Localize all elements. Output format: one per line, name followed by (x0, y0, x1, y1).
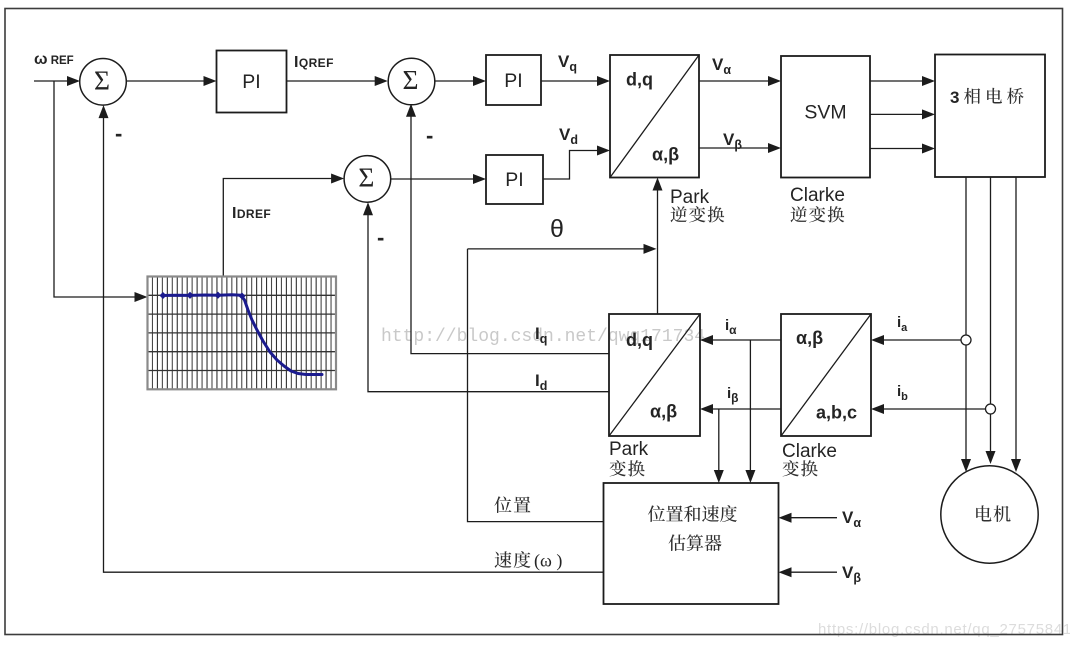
summing junction S2 (388, 58, 435, 105)
label speed (495, 551, 531, 568)
wire bridge to motor phase c (1015, 177, 1017, 460)
svg-text:Vα: Vα (842, 508, 861, 530)
wire PI3 to inverse Park (Vd) (543, 151, 598, 180)
svg-text:Vβ: Vβ (723, 130, 742, 152)
svg-text:https://blog.csdn.net/qq_27575: https://blog.csdn.net/qq_27575841 (818, 621, 1070, 638)
svg-text:α,β: α,β (652, 145, 679, 165)
wire ialpha tap to estimator (749, 340, 751, 471)
wire SVM to bridge phase 1 (870, 80, 923, 82)
current sensor node ia (961, 335, 971, 345)
svg-text:Vq: Vq (558, 52, 577, 74)
svg-text:α,β: α,β (650, 402, 677, 422)
svg-text:α,β: α,β (796, 328, 823, 348)
wire Clarke to Park (ialpha) (712, 339, 781, 341)
wire S3 to PI3 (390, 178, 474, 180)
svg-text:PI: PI (504, 70, 522, 92)
svg-text:d,q: d,q (626, 70, 653, 90)
svg-text:a,b,c: a,b,c (816, 403, 857, 423)
svg-text:(ω ): (ω ) (534, 551, 562, 572)
svg-text:SVM: SVM (804, 102, 846, 124)
wire inverse Park to SVM (Valpha) (699, 80, 769, 82)
block Park transform (609, 314, 700, 436)
block Clarke transform (781, 314, 871, 436)
svg-text:IQREF: IQREF (294, 54, 334, 71)
wire S1 to PI1 (126, 80, 204, 82)
svg-text:Park: Park (670, 187, 710, 208)
block PI2 q current regulator (486, 55, 541, 105)
wire Valpha into estimator (791, 517, 838, 519)
svg-text:ia: ia (897, 314, 908, 334)
wire ibeta tap to estimator (718, 409, 720, 471)
current sensor node ib (986, 404, 996, 414)
wire Park Id feedback to S3 (368, 214, 609, 392)
wire bridge to motor phase b (990, 177, 992, 452)
wire SVM to bridge phase 2 (870, 113, 923, 115)
wire IDREF from chart to S3 (223, 179, 332, 277)
flux weakening curve (162, 295, 322, 375)
summing junction S3 (344, 156, 391, 203)
svg-text:ω REF: ω REF (34, 51, 74, 68)
wire ia sensor to Clarke (883, 339, 961, 341)
wire wREF branch down to lookup chart (54, 81, 135, 297)
label position (494, 496, 530, 513)
svg-text:PI: PI (505, 169, 523, 191)
block PI3 d current regulator (486, 155, 543, 204)
wire speed net from estimator to S1 (104, 117, 604, 572)
svg-text:Id: Id (535, 371, 547, 393)
block inverse Park transform (610, 55, 699, 178)
svg-text:iβ: iβ (727, 385, 739, 405)
svg-text:-: - (115, 121, 122, 146)
wire S2 to PI2 (434, 80, 474, 82)
svg-text:IDREF: IDREF (232, 205, 271, 222)
block position and speed estimator (604, 483, 779, 604)
wire bridge to motor phase a (965, 177, 967, 460)
wire SVM to bridge phase 3 (870, 148, 923, 150)
flux weakening lookup chart (148, 277, 337, 390)
wire theta net vertical (657, 190, 659, 315)
svg-text:θ: θ (550, 215, 564, 243)
svg-text:3: 3 (950, 88, 959, 107)
svg-text:-: - (377, 225, 384, 250)
motor circle (941, 466, 1038, 563)
svg-text:PI: PI (242, 71, 260, 93)
wire theta horizontal from position net (468, 248, 645, 250)
wire Park Iq feedback to S2 (411, 116, 609, 354)
svg-text:Park: Park (609, 439, 649, 460)
wire position net from estimator (468, 249, 604, 522)
svg-text:-: - (426, 123, 433, 148)
svg-text:Σ: Σ (402, 64, 418, 95)
wire Vbeta into estimator (791, 571, 838, 573)
svg-text:Vα: Vα (712, 55, 731, 77)
block PI1 speed regulator (217, 51, 287, 113)
wire PI1 to S2 (IQREF) (287, 80, 376, 82)
svg-text:ib: ib (897, 383, 908, 403)
svg-text:d,q: d,q (626, 330, 653, 350)
block 3-phase bridge (935, 55, 1045, 178)
svg-text:Vd: Vd (559, 125, 578, 147)
svg-text:iα: iα (725, 317, 737, 337)
block SVM (781, 56, 870, 178)
wire PI2 to inverse Park (Vq) (541, 80, 598, 82)
wire inverse Park to SVM (Vbeta) (699, 147, 769, 149)
svg-text:Clarke: Clarke (790, 185, 845, 206)
wire Clarke to Park (ibeta) (712, 408, 781, 410)
wire wREF input (34, 80, 68, 82)
svg-text:Vβ: Vβ (842, 563, 861, 585)
svg-text:Σ: Σ (94, 64, 110, 95)
wire ib sensor to Clarke (883, 408, 986, 410)
svg-text:Clarke: Clarke (782, 441, 837, 462)
summing junction S1 (80, 59, 127, 106)
svg-text:Σ: Σ (358, 161, 374, 192)
